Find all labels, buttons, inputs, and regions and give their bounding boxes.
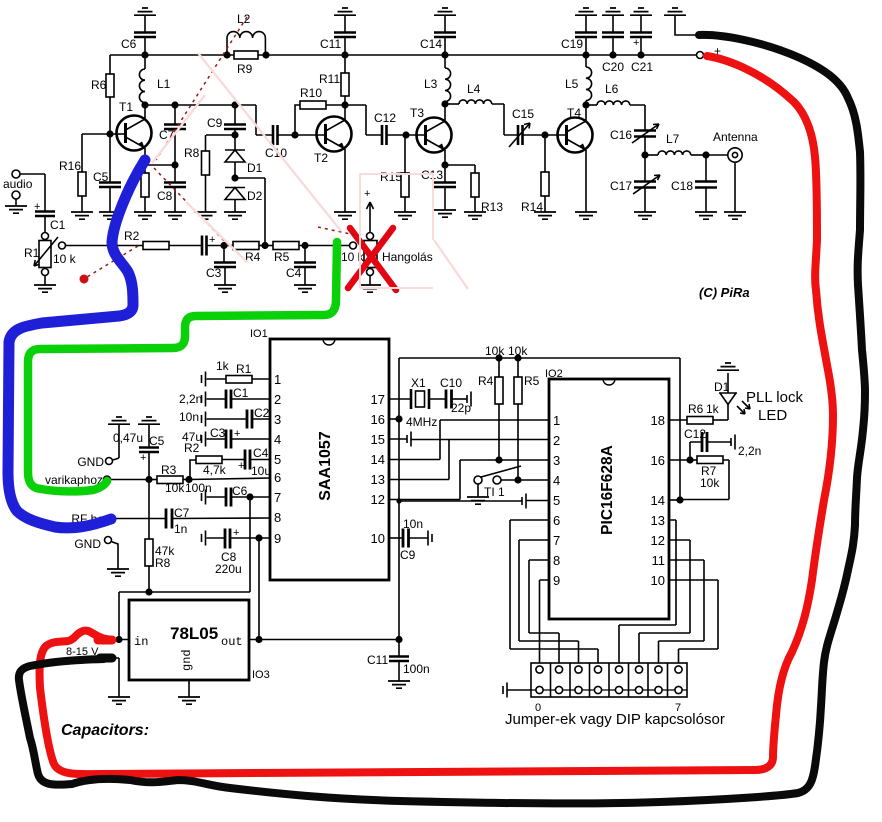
svg-text:Hangolás: Hangolás bbox=[382, 250, 433, 264]
node: 78L05 out bbox=[249, 636, 403, 643]
text Capacitors: bbox=[61, 722, 149, 739]
svg-text:1n: 1n bbox=[174, 522, 187, 536]
node: 78L05 in bbox=[112, 592, 129, 643]
node: L5 / T4 collector / L6 bbox=[582, 101, 589, 108]
svg-text:4: 4 bbox=[553, 473, 560, 488]
svg-text:varikaphoz: varikaphoz bbox=[45, 473, 103, 487]
capacitor C1 2,2n (SAA pin 2) bbox=[179, 386, 270, 409]
resistor R4 bbox=[233, 242, 261, 265]
svg-text:TI 1: TI 1 bbox=[484, 485, 505, 499]
wire: SAA pin 17 to crystal bbox=[389, 398, 411, 400]
inductor L1 bbox=[139, 55, 170, 105]
resistor R14 bbox=[521, 135, 556, 219]
svg-text:IO1: IO1 bbox=[250, 328, 268, 340]
svg-text:SAA1057: SAA1057 bbox=[317, 431, 334, 500]
transistor T1 bbox=[110, 100, 152, 165]
svg-text:10 k: 10 k bbox=[341, 250, 365, 264]
resistor R1 1k (SAA pin 1) bbox=[202, 359, 271, 387]
terminal varikaphoz bbox=[45, 473, 149, 487]
svg-text:78L05: 78L05 bbox=[170, 624, 218, 643]
svg-text:R2: R2 bbox=[184, 441, 200, 455]
svg-text:6: 6 bbox=[274, 470, 281, 485]
svg-text:R8: R8 bbox=[184, 146, 200, 160]
capacitor C9 (top of varicap chain) bbox=[207, 101, 246, 150]
svg-text:X1: X1 bbox=[411, 376, 426, 390]
svg-text:8: 8 bbox=[553, 553, 560, 568]
node: T1 base / R6 / R16 / C5 bbox=[106, 130, 113, 137]
svg-text:Antenna: Antenna bbox=[713, 130, 758, 144]
svg-text:5: 5 bbox=[553, 493, 560, 508]
svg-text:C3: C3 bbox=[210, 426, 226, 440]
node: C9 bottom / R8 bbox=[206, 131, 239, 138]
svg-text:R1: R1 bbox=[24, 246, 40, 260]
svg-text:C6: C6 bbox=[121, 37, 137, 51]
svg-text:out: out bbox=[221, 635, 243, 649]
svg-text:1k: 1k bbox=[216, 359, 230, 373]
svg-text:R9: R9 bbox=[237, 62, 253, 76]
resistor R8 47k bbox=[145, 480, 175, 593]
svg-text:C9: C9 bbox=[207, 116, 223, 130]
wire: varikaphoz line to SAA pin 6 bbox=[189, 478, 270, 480]
annotation: dashed line near Hangolas bbox=[318, 227, 355, 235]
svg-text:9: 9 bbox=[553, 573, 560, 588]
svg-text:10k: 10k bbox=[508, 344, 528, 358]
capacitor C19 bbox=[561, 33, 597, 56]
svg-text:C15: C15 bbox=[512, 107, 534, 121]
svg-text:10k: 10k bbox=[165, 481, 185, 495]
text jumper caption bbox=[505, 711, 725, 728]
svg-text:10k: 10k bbox=[700, 476, 720, 490]
capacitor C4 10u (SAA pin 5, electrolytic) bbox=[238, 446, 271, 478]
svg-text:(C) PiRa: (C) PiRa bbox=[699, 285, 750, 300]
node: C5/R3 junction bbox=[145, 476, 157, 483]
svg-text:D2: D2 bbox=[247, 189, 263, 203]
terminal GND (lower) bbox=[74, 537, 129, 577]
resistor R7 10k bbox=[680, 456, 729, 500]
svg-text:audio: audio bbox=[3, 177, 33, 191]
ground (top, above C14) bbox=[434, 8, 456, 32]
svg-text:100n: 100n bbox=[185, 481, 212, 495]
svg-text:C12: C12 bbox=[684, 427, 706, 441]
svg-text:in: in bbox=[134, 635, 148, 649]
resistor R6 bbox=[91, 55, 114, 134]
wire: PIC pin 8 to jumper col 1 bbox=[529, 560, 559, 666]
inductor L2 bbox=[227, 12, 265, 55]
svg-text:C21: C21 bbox=[631, 60, 653, 74]
svg-text:D1: D1 bbox=[714, 380, 730, 394]
capacitor C5 0,47u (inverted gnd) bbox=[113, 417, 165, 480]
svg-text:11: 11 bbox=[652, 553, 666, 568]
svg-text:7: 7 bbox=[274, 490, 281, 505]
wire: audio line to R2 bbox=[66, 245, 144, 247]
resistor R11 bbox=[319, 51, 349, 105]
svg-text:220u: 220u bbox=[215, 562, 242, 576]
capacitor C6 100n (SAA pin 7) bbox=[185, 481, 270, 507]
wire: red freehand (supply loop) bbox=[40, 56, 833, 774]
svg-text:5: 5 bbox=[274, 452, 281, 467]
node: R4 on PIC pin 3 line bbox=[495, 456, 502, 463]
svg-text:IO2: IO2 bbox=[545, 368, 563, 380]
capacitor C13 bbox=[421, 165, 456, 217]
svg-text:C20: C20 bbox=[602, 60, 624, 74]
svg-text:T2: T2 bbox=[314, 151, 328, 165]
svg-text:L7: L7 bbox=[666, 132, 680, 146]
svg-text:0,47u: 0,47u bbox=[113, 431, 143, 445]
svg-text:C4: C4 bbox=[286, 266, 302, 280]
svg-text:C8: C8 bbox=[157, 189, 173, 203]
svg-text:gnd: gnd bbox=[180, 649, 194, 671]
svg-text:C4: C4 bbox=[253, 446, 269, 460]
wire: PIC pin 11 to jumper col 6 bbox=[659, 560, 705, 666]
svg-text:C9: C9 bbox=[400, 548, 416, 562]
node: L1 bottom / T1 collector bbox=[141, 101, 235, 108]
resistor R6 1k (LED) bbox=[669, 402, 728, 424]
svg-text:C5: C5 bbox=[149, 434, 165, 448]
diode D1 (varicap) bbox=[225, 150, 263, 178]
wire: PIC pin 9 to jumper col 0 bbox=[540, 580, 550, 666]
svg-text:C18: C18 bbox=[671, 179, 693, 193]
svg-text:C1: C1 bbox=[50, 218, 66, 232]
svg-text:+: + bbox=[209, 234, 215, 246]
wire: PIC pin 7 to jumper col 2 bbox=[519, 540, 579, 666]
node: R5/C4 junction bbox=[299, 242, 350, 249]
svg-text:10: 10 bbox=[651, 573, 665, 588]
resistor R5 bbox=[273, 242, 299, 265]
wire: PIC pin 10 to jumper col 7 bbox=[669, 580, 718, 666]
LED D1 PLL lock bbox=[714, 363, 750, 420]
ground (top, above C20) bbox=[602, 8, 624, 32]
resistor R15 bbox=[380, 135, 416, 219]
transistor T2 bbox=[314, 105, 356, 219]
capacitor C16 (variable) bbox=[610, 124, 659, 155]
transistor T4 bbox=[558, 105, 598, 219]
voltage regulator IO3 78L05 bbox=[129, 600, 270, 704]
node: rail taps C19 C20 C21 bbox=[582, 51, 644, 58]
ground (inverted, above 0,47u) bbox=[108, 417, 130, 460]
svg-text:3: 3 bbox=[274, 412, 281, 427]
svg-text:C1: C1 bbox=[233, 386, 249, 400]
wire: SAA pin 14 to PIC pin 1 bbox=[389, 420, 549, 460]
svg-text:R16: R16 bbox=[59, 159, 81, 173]
capacitor C15 (variable, coupling) bbox=[509, 107, 545, 147]
svg-text:T3: T3 bbox=[410, 106, 424, 120]
wire: raw supply bus y592 bbox=[119, 588, 250, 595]
capacitor C12 2,2n bbox=[684, 427, 761, 460]
svg-text:2: 2 bbox=[553, 433, 560, 448]
capacitor C14 bbox=[420, 33, 456, 56]
wire: black terminal blob at 8-15V minus bbox=[100, 654, 112, 663]
node: PIC pin 14 junction bbox=[669, 496, 684, 503]
capacitor C11 bbox=[320, 33, 356, 56]
inductor L6 bbox=[586, 82, 645, 130]
svg-text:R3: R3 bbox=[161, 463, 177, 477]
wire: blue freehand (T1 emitter to RF be) bbox=[8, 160, 145, 528]
svg-text:C11: C11 bbox=[320, 37, 341, 51]
svg-text:L6: L6 bbox=[605, 82, 619, 96]
capacitor C8 220u (SAA pin 9, electrolytic) bbox=[202, 527, 271, 576]
svg-text:14: 14 bbox=[371, 452, 385, 467]
node: C8/C7/emitter junction bbox=[171, 161, 178, 168]
wire: SAA pin 13 to PIC pin 2 bbox=[389, 440, 449, 480]
capacitor C10 22p bbox=[440, 376, 471, 415]
svg-text:4: 4 bbox=[274, 432, 281, 447]
svg-text:C6: C6 bbox=[232, 484, 248, 498]
capacitor C17 (variable) bbox=[610, 155, 660, 219]
resistor R2 bbox=[124, 229, 202, 250]
svg-text:10n: 10n bbox=[179, 410, 199, 424]
resistor T1 emitter (unlabeled) bbox=[134, 165, 156, 219]
svg-text:6: 6 bbox=[553, 513, 560, 528]
terminal 8-15V plus bbox=[66, 635, 100, 658]
text PLL lock LED bbox=[746, 389, 803, 424]
supply rail bbox=[110, 54, 698, 56]
svg-text:2,2n: 2,2n bbox=[179, 392, 202, 406]
svg-text:13: 13 bbox=[651, 513, 665, 528]
svg-text:PLL lock: PLL lock bbox=[746, 389, 803, 406]
stub on SAA pin 15 line bbox=[389, 432, 549, 447]
capacitor C18 bbox=[671, 155, 717, 219]
inductor L5 bbox=[565, 55, 592, 105]
svg-text:L5: L5 bbox=[565, 77, 579, 91]
svg-text:4,7k: 4,7k bbox=[203, 463, 227, 477]
resistor R4 10k (pull-up) bbox=[478, 344, 505, 460]
wire: emitter node to C8 bbox=[145, 164, 175, 166]
switch TI 1 bbox=[467, 466, 549, 504]
svg-text:L1: L1 bbox=[157, 77, 171, 91]
annotation: dashed line T1 emitter to C3 bbox=[154, 168, 230, 247]
annotation: dashed line to red dot bbox=[80, 246, 139, 284]
capacitor C7 1n (RF be to SAA pin 8) bbox=[111, 506, 270, 536]
svg-text:4MHz: 4MHz bbox=[406, 415, 437, 429]
annotation: faint pink ghost strokes bbox=[152, 53, 468, 289]
wire: VDD rail to PIC pin 14 bbox=[399, 358, 680, 500]
ground (top, above C21) bbox=[630, 8, 652, 32]
svg-text:+: + bbox=[633, 37, 639, 49]
svg-text:GND: GND bbox=[77, 455, 104, 469]
capacitor C5 (T1 base bypass) bbox=[93, 134, 121, 219]
svg-text:18: 18 bbox=[651, 413, 665, 428]
svg-text:LED: LED bbox=[758, 407, 787, 424]
svg-text:R6: R6 bbox=[688, 402, 704, 416]
svg-text:1k: 1k bbox=[706, 402, 720, 416]
node: T2 collector / R11 / R10 bbox=[341, 101, 348, 108]
potentiometer R1 10k bbox=[24, 233, 77, 293]
svg-text:7: 7 bbox=[553, 533, 560, 548]
capacitor C9 10n (SAA pin 10) bbox=[389, 517, 432, 562]
transistor T3 bbox=[410, 104, 452, 165]
resistor R10 bbox=[295, 86, 345, 135]
wire: green freehand (Hangolas wiper to varikaphoz) bbox=[28, 242, 337, 491]
svg-text:C17: C17 bbox=[610, 179, 632, 193]
resistor R9 bbox=[223, 51, 269, 76]
text (C) PiRa bbox=[699, 285, 750, 300]
svg-text:15: 15 bbox=[371, 432, 385, 447]
node: C6/pin7 to supply drop bbox=[246, 493, 253, 592]
capacitor C12 (coupling T2-T3) bbox=[345, 105, 406, 145]
node: SAA pin 16 / VDD vertical bbox=[389, 415, 403, 422]
terminal GND (upper) bbox=[77, 455, 112, 469]
svg-text:2,2n: 2,2n bbox=[738, 444, 761, 458]
wire: PIC pin 5 ground stub line bbox=[396, 494, 549, 509]
resistor R2 4,7k (SAA pin 5) bbox=[184, 441, 245, 480]
resistor R16 bbox=[59, 134, 110, 219]
inductor L4 bbox=[445, 82, 518, 135]
capacitor C2 10n (SAA pin 3) bbox=[179, 406, 270, 429]
resistor R13 bbox=[464, 165, 503, 219]
svg-text:C16: C16 bbox=[610, 128, 632, 142]
svg-text:C2: C2 bbox=[254, 406, 270, 420]
svg-text:13: 13 bbox=[371, 472, 385, 487]
capacitor C6 bbox=[121, 33, 156, 56]
node: C7 top on rail bbox=[171, 101, 178, 108]
terminal RF be bbox=[71, 512, 114, 526]
svg-text:C3: C3 bbox=[206, 266, 222, 280]
svg-text:T1: T1 bbox=[119, 100, 133, 114]
svg-text:C14: C14 bbox=[420, 37, 442, 51]
svg-text:2: 2 bbox=[274, 392, 281, 407]
capacitor C1 (electrolytic, audio in) bbox=[34, 174, 66, 232]
op-amp U2 : IC IO2 PIC16F628A bbox=[545, 368, 669, 619]
node: R2 tap on varikaphoz line bbox=[185, 476, 192, 483]
svg-text:C11: C11 bbox=[367, 653, 388, 667]
svg-text:C10: C10 bbox=[440, 376, 462, 390]
wire: PIC pin 13 to jumper col 4 bbox=[619, 520, 676, 666]
svg-text:100n: 100n bbox=[403, 662, 430, 676]
capacitor C4 (shunt) bbox=[286, 246, 316, 293]
svg-text:10 k: 10 k bbox=[53, 252, 77, 266]
svg-text:T4: T4 bbox=[567, 106, 581, 120]
ground (top right, feeds black wire) bbox=[664, 8, 700, 35]
annotation: dashed line from L2 to T1 bbox=[156, 17, 247, 160]
svg-text:R4: R4 bbox=[478, 374, 494, 388]
svg-text:16: 16 bbox=[651, 453, 665, 468]
svg-text:16: 16 bbox=[371, 412, 385, 427]
inductor L3 bbox=[424, 51, 451, 104]
svg-text:C5: C5 bbox=[93, 170, 109, 184]
svg-text:IO3: IO3 bbox=[252, 669, 270, 681]
svg-text:+: + bbox=[140, 452, 146, 464]
svg-text:C12: C12 bbox=[374, 111, 396, 125]
svg-text:12: 12 bbox=[371, 492, 385, 507]
node: T3 emitter / C13 / R13 bbox=[441, 161, 475, 168]
inductor L7 bbox=[645, 132, 706, 155]
audio connector bbox=[3, 170, 45, 213]
diode D2 (varicap) bbox=[224, 188, 263, 220]
capacitor C3 47u (SAA pin 4, electrolytic) bbox=[182, 426, 270, 449]
svg-text:C7: C7 bbox=[174, 506, 190, 520]
svg-text:C10: C10 bbox=[265, 146, 287, 160]
svg-text:Capacitors:: Capacitors: bbox=[61, 722, 149, 739]
terminal 8-15V minus bbox=[98, 656, 130, 704]
svg-text:L3: L3 bbox=[424, 77, 438, 91]
svg-text:14: 14 bbox=[651, 493, 665, 508]
jumper block (8x2 header) bbox=[503, 663, 687, 714]
svg-text:1: 1 bbox=[553, 413, 560, 428]
antenna connector bbox=[713, 130, 758, 219]
wire: red terminal blob at 8-15V bbox=[98, 636, 112, 645]
svg-text:R5: R5 bbox=[274, 250, 290, 264]
node: R4/R5 junction to varicaps bbox=[259, 242, 273, 249]
svg-text:L4: L4 bbox=[467, 82, 481, 96]
node: PIC pin 16 junction bbox=[669, 456, 694, 463]
capacitor C3 series (electrolytic) bbox=[202, 234, 224, 256]
svg-text:Jumper-ek vagy DIP kapcsolósor: Jumper-ek vagy DIP kapcsolósor bbox=[505, 711, 725, 728]
svg-text:9: 9 bbox=[274, 531, 281, 546]
svg-text:R1: R1 bbox=[236, 362, 252, 376]
op-amp U1 : IC IO1 SAA1057 bbox=[250, 328, 389, 580]
crystal X1 4MHz bbox=[406, 376, 446, 429]
wire: PIC pin 12 to jumper col 5 bbox=[639, 540, 690, 666]
node: SAA pin 9 to 78L05 out bbox=[255, 534, 262, 639]
svg-text:3: 3 bbox=[553, 453, 560, 468]
svg-text:10u: 10u bbox=[251, 464, 271, 478]
annotation: red X over Hangolas bbox=[348, 228, 396, 290]
svg-text:8: 8 bbox=[274, 510, 281, 525]
node: rail/C6/L1 junction bbox=[141, 51, 148, 58]
svg-text:1: 1 bbox=[274, 372, 281, 387]
svg-text:+: + bbox=[34, 201, 40, 213]
wire: SAA pin 12 to PIC pin 3 bbox=[389, 460, 549, 500]
ground (top, above C6) bbox=[134, 8, 156, 32]
svg-text:R2: R2 bbox=[124, 229, 140, 243]
node: L7 / C18 / antenna bbox=[702, 151, 728, 158]
capacitor C10 (coupling T1-T2) bbox=[235, 105, 295, 160]
svg-text:R4: R4 bbox=[245, 250, 261, 264]
svg-text:R5: R5 bbox=[524, 374, 540, 388]
svg-text:L2: L2 bbox=[237, 12, 251, 26]
resistor R3 10k bbox=[157, 463, 189, 495]
wire: PIC pin 6 to jumper col 3 bbox=[510, 520, 598, 666]
svg-text:10k: 10k bbox=[485, 344, 505, 358]
svg-text:+: + bbox=[238, 460, 244, 472]
capacitor C11 100n bbox=[367, 640, 430, 689]
wire: VDD vertical (SAA16 to 78L05 out) bbox=[398, 358, 400, 639]
resistor R8 (varicap bias) bbox=[184, 135, 217, 219]
node: C3 shunt junction bbox=[220, 242, 233, 249]
capacitor C7 (feedback) bbox=[159, 105, 186, 165]
svg-text:12: 12 bbox=[651, 533, 665, 548]
capacitor C20 bbox=[602, 33, 624, 75]
svg-text:22p: 22p bbox=[451, 401, 471, 415]
resistor R5 10k (pull-up) bbox=[508, 344, 540, 480]
svg-text:C19: C19 bbox=[561, 37, 583, 51]
node: T3 base / C12 / R15 bbox=[402, 131, 425, 138]
svg-text:R8: R8 bbox=[155, 556, 171, 570]
svg-text:R6: R6 bbox=[91, 78, 107, 92]
ground (top, above C19) bbox=[575, 8, 597, 32]
capacitor C8 (emitter bypass) bbox=[157, 165, 186, 219]
capacitor C21 (electrolytic) bbox=[630, 33, 653, 75]
svg-text:+: + bbox=[234, 428, 240, 440]
svg-text:+: + bbox=[233, 527, 239, 539]
stub after C10 bbox=[467, 392, 471, 407]
node: L3 / T3 collector / L4 bbox=[441, 100, 448, 107]
svg-text:R15: R15 bbox=[380, 170, 402, 184]
svg-text:10: 10 bbox=[371, 531, 385, 546]
node: C16 / L7 / C17 bbox=[641, 151, 648, 158]
svg-text:17: 17 bbox=[371, 392, 385, 407]
svg-text:GND: GND bbox=[74, 537, 101, 551]
ground (top, above C11) bbox=[334, 8, 356, 32]
svg-text:R11: R11 bbox=[319, 72, 340, 86]
terminal: rail + output bbox=[697, 44, 722, 59]
node: D1/D2 junction bbox=[231, 174, 265, 245]
svg-text:10n: 10n bbox=[403, 517, 423, 531]
svg-text:R10: R10 bbox=[300, 86, 322, 100]
node: T4 base / C15 / R14 bbox=[541, 131, 566, 138]
capacitor C3 (shunt) bbox=[206, 246, 236, 293]
node: R5 on PIC pin 4 line bbox=[514, 476, 521, 483]
